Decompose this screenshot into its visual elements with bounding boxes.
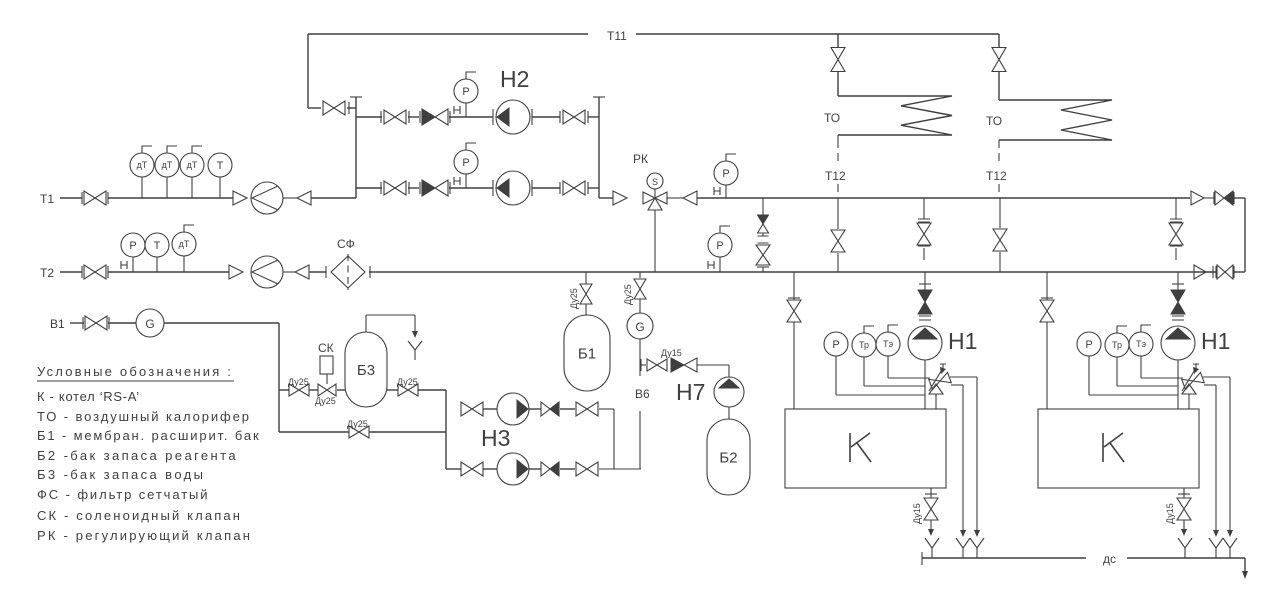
wire Н3 branch: [483, 408, 614, 410]
wire дс line: [922, 552, 1245, 565]
valve drop x838: [831, 198, 845, 272]
actuator S of РК: [647, 173, 663, 189]
wire boiler bypass out upper: [950, 376, 977, 378]
sensor Тэ boiler: [1129, 325, 1153, 356]
svg-text:Т1: Т1: [40, 192, 54, 206]
meter G В1: [136, 309, 164, 337]
sensor Тр boiler: [852, 326, 876, 357]
svg-text:В1: В1: [50, 317, 65, 331]
sensor Тр boiler: [1105, 326, 1129, 357]
pump on T1: [251, 182, 283, 214]
sensor дТ on T2: [172, 225, 196, 272]
svg-text:G: G: [145, 317, 154, 331]
pump H2: [493, 100, 532, 134]
svg-text:Б2 -бак запаса реагента: Б2 -бак запаса реагента: [37, 448, 238, 463]
label T12: [825, 169, 846, 183]
valve Ду25 to Б1: [569, 272, 592, 315]
reducer before pump T2: [229, 265, 243, 279]
wire H2 right collector: [593, 97, 613, 198]
check valve at T1 right end: [1204, 191, 1245, 205]
reducer before РК: [613, 191, 627, 205]
svg-text:дТ: дТ: [179, 239, 190, 249]
valve Н3 outlet: [576, 462, 598, 476]
label Н1: [948, 328, 977, 354]
valve H2 branch inlet: [381, 181, 409, 195]
pump on T2: [251, 256, 283, 288]
valve on T2 inlet: [82, 265, 108, 279]
funnel inner: [956, 538, 970, 558]
wire Тэ stem: [888, 356, 930, 378]
svg-text:ТО: ТО: [986, 114, 1002, 128]
three-way regulating valve boiler: [929, 364, 952, 409]
svg-text:К - котел ‘RS-A’: К - котел ‘RS-A’: [37, 389, 140, 404]
check valve Н1 suction: [1171, 290, 1185, 314]
svg-text:Условные обозначения :: Условные обозначения :: [37, 364, 233, 379]
svg-text:Р: Р: [462, 86, 469, 98]
svg-text:Ду25: Ду25: [315, 396, 336, 406]
three-way regulating valve boiler: [1182, 364, 1205, 409]
svg-text:Ду25: Ду25: [569, 288, 579, 309]
solenoid valve СК: [315, 341, 336, 406]
wire bypass 432: [279, 431, 446, 433]
gauge P H2: [454, 72, 478, 117]
wire Н1 suction: [1172, 272, 1184, 320]
legend line: [37, 467, 205, 482]
svg-text:Б2: Б2: [719, 449, 737, 466]
valve Ду25 bypass: [347, 419, 369, 438]
valve drop x763: [756, 245, 770, 272]
wire Б3 overflow: [366, 315, 415, 332]
svg-text:Б1 - мембран. расширит. ба: Б1 - мембран. расширит. бак: [37, 428, 260, 443]
wire Н1 discharge: [1177, 360, 1179, 409]
valve Н3 inlet: [461, 462, 483, 476]
label РК: [633, 152, 648, 166]
wire drop from T11 to heater: [998, 34, 1000, 100]
wire В1 down leg: [278, 323, 280, 432]
legend line: [37, 448, 238, 463]
label Н3: [481, 425, 510, 451]
label ТО: [824, 111, 840, 125]
svg-text:Тр: Тр: [1112, 340, 1122, 350]
wire boiler bypass out upper: [1203, 376, 1230, 378]
check valve Ду15 dosing: [671, 358, 697, 372]
valve on heater supply: [831, 48, 845, 72]
label Н7: [676, 379, 705, 405]
tank Б2: [707, 419, 750, 495]
reducer after pump T2: [283, 265, 309, 279]
sensor Р boiler: [824, 332, 848, 356]
svg-text:Ду25: Ду25: [397, 377, 418, 387]
legend line: [37, 487, 209, 502]
svg-text:Б1: Б1: [578, 345, 596, 362]
drain pipe inner: [1213, 385, 1219, 537]
legend line: [37, 409, 251, 424]
svg-text:Н1: Н1: [948, 328, 977, 354]
svg-text:РК: РК: [633, 152, 648, 166]
legend line: [37, 508, 242, 523]
svg-text:Ду25: Ду25: [623, 284, 633, 305]
label Н1: [1201, 328, 1230, 354]
wire T1 header right: [697, 197, 1190, 199]
svg-text:Т12: Т12: [986, 169, 1007, 183]
reducer at T1 right end: [1191, 191, 1204, 205]
wire Тр stem: [1117, 357, 1178, 386]
boiler К: [1038, 409, 1199, 488]
wire Н3 suction collector: [446, 390, 461, 469]
wire Ду15 branch: [640, 359, 729, 377]
heater coil ТО: [999, 100, 1112, 140]
wire Б3 outlet: [387, 389, 446, 391]
check valve Н3: [541, 402, 559, 416]
tank Б1: [564, 315, 610, 391]
check valve drop x763: [758, 198, 769, 243]
svg-text:РК - регулирующий клапан: РК - регулирующий клапан: [37, 528, 252, 543]
svg-text:Ду25: Ду25: [347, 419, 368, 429]
svg-text:Ду15: Ду15: [912, 503, 922, 524]
wire В1 line: [70, 322, 279, 324]
svg-text:дс: дс: [1103, 552, 1116, 566]
wire СК branch: [279, 389, 345, 391]
svg-text:Н7: Н7: [676, 379, 705, 405]
pump Н1: [908, 326, 942, 360]
wire drop from T11 to heater: [837, 34, 839, 96]
sensor Т on T2: [145, 233, 169, 272]
wire boiler bypass out lower: [951, 384, 963, 386]
wire T2 header: [60, 271, 1216, 273]
wire T12 drop: [998, 140, 1000, 192]
reducer after РК: [667, 191, 697, 205]
svg-text:Ду15: Ду15: [661, 348, 682, 358]
wire T11 line: [308, 33, 999, 35]
valve Н3 inlet: [461, 402, 483, 416]
svg-text:дТ: дТ: [187, 160, 198, 170]
wire boiler bypass out lower: [1204, 384, 1216, 386]
funnel inner: [1209, 538, 1223, 558]
valve boiler supply: [1040, 300, 1054, 322]
svg-text:Т2: Т2: [40, 266, 54, 280]
svg-text:Р: Р: [462, 157, 469, 169]
svg-text:Тэ: Тэ: [883, 339, 893, 349]
svg-text:Н1: Н1: [1201, 328, 1230, 354]
wire right U-turn: [1244, 198, 1246, 272]
valve H2 branch outlet: [560, 110, 588, 124]
svg-text:дТ: дТ: [162, 160, 173, 170]
label ТО: [986, 114, 1002, 128]
wire Н3 merge: [613, 409, 615, 469]
valve H2 branch outlet: [560, 181, 588, 195]
valve drop x1000: [993, 198, 1007, 272]
svg-text:Т: Т: [154, 240, 161, 252]
boiler drain Ду15: [912, 488, 938, 536]
wire H2 branch: [356, 116, 599, 118]
drain pipe outer: [974, 377, 980, 537]
wire Н3 branch: [483, 468, 641, 470]
legend line: [37, 528, 252, 543]
drain pipe outer: [1227, 377, 1233, 537]
wire boiler supply riser: [788, 272, 800, 409]
svg-text:Р: Р: [129, 240, 136, 252]
wire Н1 discharge: [924, 360, 926, 409]
wire Тэ stem: [1141, 356, 1183, 378]
check valve Н1 suction: [918, 290, 932, 314]
check valve H2 branch: [420, 109, 450, 125]
wire Н7 to Б2: [728, 407, 730, 419]
legend title: [37, 364, 234, 381]
svg-text:Р: Р: [716, 240, 723, 252]
sensor Р on T2: [121, 233, 145, 272]
valve В1: [83, 316, 109, 330]
pump H2: [493, 171, 532, 205]
meter G В6: [627, 313, 653, 339]
label T2: [40, 266, 54, 280]
wire дс outlet arrow: [1242, 558, 1248, 579]
wire Р stem: [836, 356, 925, 395]
filter СФ: [326, 237, 370, 290]
svg-text:Н3: Н3: [481, 425, 510, 451]
label В6: [635, 387, 650, 401]
sensor Р boiler: [1077, 332, 1101, 356]
svg-text:Ду15: Ду15: [1165, 503, 1175, 524]
svg-text:Тэ: Тэ: [1136, 339, 1146, 349]
pump Н7: [714, 377, 744, 407]
valve at T2 right end: [1213, 265, 1245, 279]
gauge P above T2 right: [708, 226, 732, 272]
label T1: [40, 192, 54, 206]
check valve H2 branch: [420, 180, 450, 196]
drain pipe inner: [960, 385, 966, 537]
svg-text:Т12: Т12: [825, 169, 846, 183]
wire В6 line: [639, 339, 641, 469]
valve Ду15 dosing: [647, 348, 682, 371]
label T12: [986, 169, 1007, 183]
funnel outer: [970, 538, 984, 558]
funnel boiler drain: [925, 538, 939, 558]
wire Тр stem: [864, 357, 925, 386]
wire Н1 suction: [919, 272, 931, 320]
legend line: [37, 428, 260, 443]
svg-text:Р: Р: [1085, 339, 1092, 351]
wire Р stem: [1089, 356, 1178, 395]
sensor Тэ boiler: [876, 325, 900, 356]
svg-text:В6: В6: [635, 387, 650, 401]
boiler К: [785, 409, 946, 488]
valve boiler supply: [787, 300, 801, 322]
svg-text:дТ: дТ: [137, 160, 148, 170]
valve drop x924: [917, 198, 931, 260]
svg-text:S: S: [652, 177, 658, 187]
svg-text:СК: СК: [318, 341, 334, 355]
svg-text:Б3: Б3: [357, 362, 375, 379]
label В1: [50, 317, 65, 331]
wire РК to T2: [654, 210, 656, 272]
reducer after pump T1: [283, 191, 311, 205]
overflow funnel: [408, 341, 422, 360]
wire H2 left collector: [350, 97, 362, 198]
tank Б3: [345, 332, 387, 407]
pump Н3: [497, 393, 529, 425]
valve on T1 inlet: [82, 191, 108, 205]
boiler drain Ду15: [1165, 488, 1191, 536]
svg-text:Тр: Тр: [859, 340, 869, 350]
svg-text:СК - соленоидный клапан: СК - соленоидный клапан: [37, 508, 242, 523]
valve Ду25 Б3 outlet: [397, 377, 418, 396]
svg-text:Т: Т: [217, 160, 224, 172]
valve Ду25 СК branch: [288, 377, 309, 396]
sensor дТ 3: [180, 146, 204, 198]
wire boiler supply riser: [1041, 272, 1053, 409]
label T11: [607, 29, 627, 43]
pump Н3: [497, 453, 529, 485]
sensor дТ 2: [155, 146, 179, 198]
valve drop x1176: [1169, 198, 1183, 260]
three-way valve РК: [643, 189, 667, 210]
wire T1 header: [60, 197, 356, 199]
overflow arrow: [412, 315, 418, 338]
check valve Н3: [541, 462, 559, 476]
valve Н3 outlet: [576, 402, 598, 416]
heater coil ТО: [838, 96, 952, 135]
valve on T11 drop: [323, 101, 349, 115]
wire H2 branch: [356, 187, 599, 189]
label H2: [500, 66, 529, 92]
funnel outer: [1223, 538, 1237, 558]
svg-text:Ду25: Ду25: [288, 377, 309, 387]
svg-text:Р: Р: [832, 339, 839, 351]
svg-text:ТО: ТО: [824, 111, 840, 125]
wire T12 drop: [837, 135, 839, 192]
svg-text:Р: Р: [722, 168, 729, 180]
valve H2 branch inlet: [381, 110, 409, 124]
sensor дТ 1: [130, 146, 154, 198]
valve Ду25 to G В6: [623, 272, 646, 313]
svg-text:ФС - фильтр сетчатый: ФС - фильтр сетчатый: [37, 487, 209, 502]
legend line: [37, 389, 140, 404]
valve on heater supply: [992, 48, 1006, 72]
svg-text:Т11: Т11: [607, 29, 627, 43]
reducer before pump T1: [233, 191, 247, 205]
gauge P on T1 right: [714, 154, 738, 198]
pump Н1: [1161, 326, 1195, 360]
reducer at T2 right end: [1194, 265, 1213, 279]
wire T11 left drop: [308, 34, 356, 108]
funnel boiler drain: [1178, 538, 1192, 558]
svg-text:ТО - воздушный калорифер: ТО - воздушный калорифер: [37, 409, 251, 424]
svg-text:G: G: [635, 320, 644, 334]
svg-text:СФ: СФ: [337, 237, 355, 251]
svg-text:Н2: Н2: [500, 66, 529, 92]
gauge P H2: [454, 143, 478, 188]
svg-text:Б3 -бак запаса воды: Б3 -бак запаса воды: [37, 467, 205, 482]
label дс: [1103, 552, 1116, 566]
sensor Т: [208, 153, 232, 198]
